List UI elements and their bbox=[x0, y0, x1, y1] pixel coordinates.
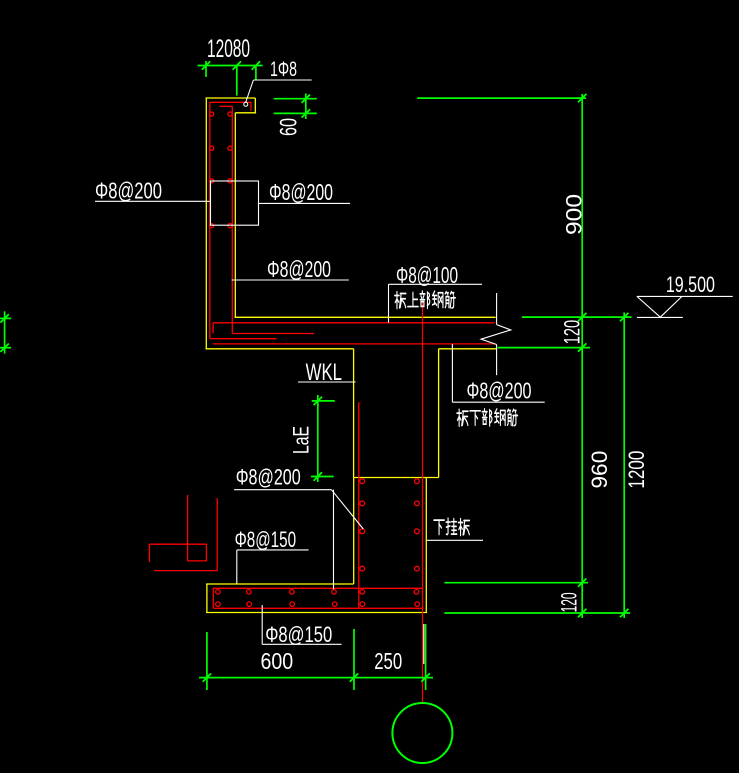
svg-text:960: 960 bbox=[587, 451, 612, 489]
svg-text:60: 60 bbox=[276, 118, 303, 136]
svg-text:900: 900 bbox=[562, 194, 587, 235]
svg-text:Φ8@100: Φ8@100 bbox=[396, 262, 458, 288]
svg-text:120: 120 bbox=[560, 320, 585, 345]
svg-text:Φ8@200: Φ8@200 bbox=[236, 465, 301, 490]
svg-text:1200: 1200 bbox=[624, 451, 649, 489]
svg-text:LaE: LaE bbox=[289, 426, 314, 454]
svg-text:12080: 12080 bbox=[207, 35, 250, 63]
svg-text:120: 120 bbox=[557, 592, 582, 612]
svg-text:1Φ8: 1Φ8 bbox=[270, 58, 297, 81]
svg-text:Φ8@200: Φ8@200 bbox=[95, 178, 162, 204]
svg-text:Φ8@200: Φ8@200 bbox=[269, 179, 333, 205]
svg-text:WKL: WKL bbox=[306, 359, 342, 386]
svg-text:250: 250 bbox=[374, 648, 402, 674]
svg-text:600: 600 bbox=[261, 648, 294, 674]
svg-text:Φ8@200: Φ8@200 bbox=[267, 256, 331, 282]
svg-text:Φ8@200: Φ8@200 bbox=[467, 378, 532, 404]
svg-text:Φ8@150: Φ8@150 bbox=[235, 527, 297, 552]
svg-text:Φ8@150: Φ8@150 bbox=[265, 622, 332, 647]
svg-text:19.500: 19.500 bbox=[666, 272, 715, 297]
